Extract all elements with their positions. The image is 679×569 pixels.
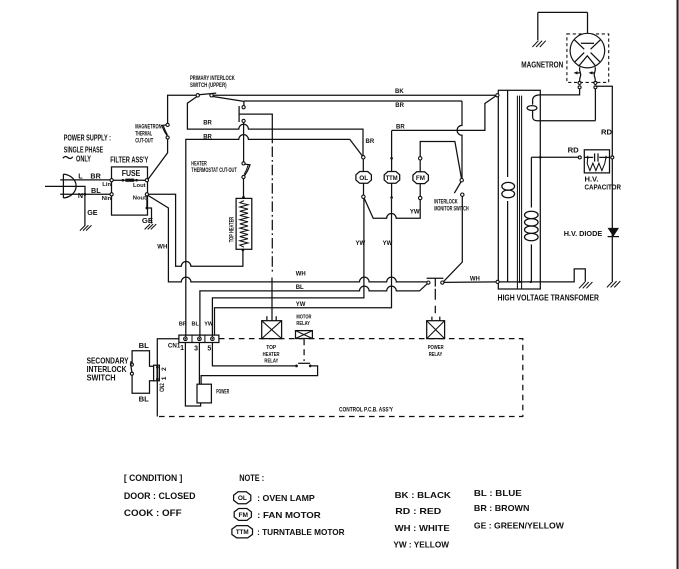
magnetron thermal cut-out switch [162, 123, 169, 139]
wire CN2 pin2 to CN1 [157, 339, 179, 366]
svg-text:ONLY: ONLY [76, 153, 91, 163]
svg-text:RELAY: RELAY [429, 352, 443, 358]
svg-text:1: 1 [180, 345, 184, 352]
svg-text:: OVEN LAMP: : OVEN LAMP [257, 493, 315, 503]
legend TTM text [257, 527, 345, 537]
label WH [157, 245, 167, 251]
label BK [395, 89, 404, 95]
svg-text:YW: YW [204, 321, 214, 327]
pin 3 [194, 346, 198, 353]
svg-text:NOTE :: NOTE : [239, 473, 264, 483]
svg-text:SWITCH: SWITCH [87, 373, 116, 383]
label MAGNETRON THERMAL CUT-OUT [135, 124, 161, 144]
relay actuation link (dashed part) [271, 147, 273, 275]
legend FM text [257, 510, 321, 520]
label HIGH VOLTAGE TRANSFOMER [498, 292, 600, 302]
label CONTROL P.C.B. ASS'Y [339, 408, 393, 414]
label YW (CN1) [204, 321, 214, 327]
pin label 1 (rotated) [161, 376, 168, 380]
label POWER RELAY [428, 345, 444, 358]
label MAGNETRON [521, 61, 563, 70]
legend OL text [257, 493, 315, 503]
svg-text:RELAY: RELAY [264, 359, 278, 365]
top heater element [236, 198, 252, 249]
terminal Nout [145, 193, 148, 196]
power module [197, 384, 211, 403]
label BR [396, 124, 405, 130]
label RD [601, 128, 613, 137]
label Nout [133, 196, 146, 202]
ground (filter earth) [145, 224, 157, 229]
svg-text:BK: BK [395, 89, 404, 95]
label YW [410, 209, 420, 215]
label BR (CN1) [179, 321, 187, 327]
wire monitor switch to WH node [443, 196, 462, 281]
svg-text:COOK : OFF: COOK : OFF [124, 508, 182, 518]
svg-text:H.V. DIODE: H.V. DIODE [564, 229, 603, 238]
motor relay K2 [296, 331, 313, 339]
svg-text:CONTROL P.C.B. ASS'Y: CONTROL P.C.B. ASS'Y [339, 408, 393, 414]
wire YW link: oven lamp to fan motor [364, 198, 420, 218]
label OL [359, 175, 368, 182]
svg-text:Lin: Lin [102, 182, 111, 188]
svg-text:GE: GE [87, 208, 98, 217]
transformer primary bottom terminal [496, 280, 499, 283]
label POWER [216, 388, 229, 395]
svg-text:WH: WH [296, 272, 306, 278]
power relay K3 [427, 317, 445, 339]
top heater relay K1 [262, 278, 282, 339]
svg-text:RD : RED: RD : RED [395, 506, 441, 516]
top heater relay contact S2 [239, 106, 245, 123]
label RD [568, 146, 580, 155]
svg-text:Nin: Nin [102, 196, 112, 202]
svg-text:CUT-OUT: CUT-OUT [135, 138, 153, 144]
wire motor relay contact return to power module [201, 366, 318, 384]
svg-text:MAGNETRON: MAGNETRON [135, 124, 161, 130]
svg-text:YW: YW [383, 241, 393, 247]
wire BL: bus to CN1 pin3 [200, 284, 427, 337]
svg-text:N: N [78, 191, 83, 200]
wire WH: power contact to HV transformer [444, 281, 496, 284]
label FILTER ASS'Y [110, 155, 148, 165]
terminal Lin [110, 179, 113, 182]
wire RD: transformer secondary to capacitor [531, 156, 578, 159]
svg-text:2: 2 [161, 367, 168, 371]
wire CN2 pin1 to PCB edge [156, 381, 158, 417]
svg-text:FM: FM [239, 512, 249, 519]
label CN1 [168, 342, 181, 349]
svg-text:1: 1 [161, 376, 168, 380]
svg-text:GE: GE [142, 216, 153, 225]
primary interlock switch (upper) [196, 93, 216, 97]
terminal Lout [145, 179, 148, 182]
svg-text:BL: BL [91, 186, 101, 195]
wire: interlock to heater relay contact [213, 97, 462, 106]
label GE [87, 208, 98, 217]
svg-text:3: 3 [194, 346, 198, 353]
pin 1 [180, 345, 184, 352]
terminal Nin [110, 193, 113, 196]
wire Lout to magnetron thermal cut-out [148, 139, 168, 179]
svg-text:OL: OL [238, 495, 247, 502]
page border right edge [677, 0, 679, 569]
motor relay contact [295, 339, 312, 367]
relay actuation link (solid part) [239, 114, 272, 143]
svg-text:YW : YELLOW: YW : YELLOW [393, 540, 449, 550]
transformer chassis tab [540, 269, 585, 282]
label H.V. DIODE [564, 229, 603, 238]
label WH [470, 276, 480, 282]
svg-text:YW: YW [410, 209, 420, 215]
magnetron filament legs [574, 67, 596, 81]
wire CN1 pin3 to power module [198, 343, 200, 385]
HV diode D1 [608, 228, 619, 237]
svg-text:TTM: TTM [386, 175, 398, 182]
wire YW: oven lamp to CN1 pin5 [212, 199, 364, 337]
label HEATER THERMOSTAT CUT-OUT [191, 162, 237, 175]
svg-text:BR: BR [179, 321, 187, 327]
label MOTOR RELAY [296, 314, 311, 327]
wire top heater bottom to Nout [149, 194, 245, 266]
label PRIMARY INTERLOCK SWITCH (UPPER) [190, 76, 235, 89]
ground (HV diode) [607, 281, 620, 287]
wire thermostat to top heater [242, 179, 245, 199]
label TTM [386, 175, 398, 182]
svg-text:YW: YW [356, 241, 366, 247]
svg-text:BR: BR [366, 139, 375, 145]
label BR (oven lamp feed) [366, 139, 375, 145]
label TOP HEATER (rotated) [229, 216, 235, 242]
legend: note [239, 473, 264, 483]
legend symbol TTM [232, 526, 253, 538]
svg-text:MAGNETRON: MAGNETRON [521, 61, 563, 70]
svg-text:BL : BLUE: BL : BLUE [474, 488, 522, 498]
svg-text:GE : GREEN/YELLOW: GE : GREEN/YELLOW [474, 520, 564, 530]
control PCB assembly boundary [157, 339, 522, 417]
svg-text:RD: RD [568, 146, 580, 155]
svg-text:RELAY: RELAY [296, 321, 310, 327]
svg-text:CAPACITOR: CAPACITOR [585, 183, 622, 192]
wire RD: filament to HV capacitor [595, 86, 612, 156]
AC plug P1 [45, 174, 110, 198]
svg-text:INTERLOCK: INTERLOCK [434, 200, 458, 206]
svg-text:OL: OL [359, 175, 368, 182]
interlock monitor switch [454, 179, 464, 197]
transformer secondary winding [525, 157, 539, 282]
wire RD down to diode [611, 159, 613, 281]
label YW (lamp drop) [356, 241, 366, 247]
wire filament right to winding [594, 89, 596, 121]
label FUSE [122, 168, 141, 178]
label N [78, 191, 83, 200]
svg-text:[ CONDITION ]: [ CONDITION ] [124, 473, 183, 483]
filter assembly box [112, 167, 148, 215]
svg-text:BR : BROWN: BR : BROWN [474, 503, 529, 513]
svg-text:BL: BL [192, 321, 200, 327]
wire YW: turntable motor to CN1 [215, 199, 392, 335]
ground (plug earth) [80, 225, 92, 230]
CN1 connector [179, 335, 219, 342]
wire BR1: interlock common to oven lamp [187, 97, 363, 156]
wire BR2: bus to CN1 pin1 and oven lamp [186, 135, 362, 337]
magnetron shield (dashed box) [567, 34, 609, 83]
turntable motor TTM [384, 130, 400, 198]
label SECONDARY INTERLOCK SWITCH [87, 356, 129, 383]
svg-text:: TURNTABLE MOTOR: : TURNTABLE MOTOR [257, 527, 345, 537]
svg-text:POWER: POWER [428, 345, 444, 351]
svg-text:TTM: TTM [236, 529, 249, 536]
label BL (upper) [139, 341, 150, 350]
label H.V. CAPACITOR [585, 175, 622, 192]
fan motor FM [413, 142, 462, 200]
GE earth wire from plug [84, 194, 86, 225]
svg-text:THERMAL: THERMAL [135, 131, 152, 137]
svg-text:BL: BL [139, 341, 150, 350]
svg-text:BR: BR [203, 134, 212, 140]
label Nin [102, 196, 112, 202]
wire CN1 pin5 to motor relay contact [212, 343, 295, 366]
legend: condition [124, 473, 196, 518]
svg-text:RD: RD [601, 128, 613, 137]
CN2 connector [154, 365, 160, 381]
label BL (lower) [139, 394, 150, 403]
svg-text:BR: BR [90, 172, 101, 181]
magnetron terminals [578, 81, 597, 88]
secondary interlock switch loop [130, 351, 153, 394]
magnetron V1 [570, 33, 605, 68]
transformer filament winding [527, 95, 595, 121]
wire BR: transformer primary to turntable motor [392, 96, 496, 130]
label BL (CN1) [192, 321, 200, 327]
svg-text:FUSE: FUSE [122, 168, 141, 178]
legend symbol OL [234, 492, 251, 504]
svg-text:WH : WHITE: WH : WHITE [395, 523, 451, 533]
transformer core [517, 96, 521, 289]
svg-text:BL: BL [139, 394, 150, 403]
HV capacitor C1 [578, 150, 614, 173]
label BL (blue wire) [91, 186, 101, 195]
svg-text:BR: BR [396, 124, 405, 130]
pin 5 [207, 346, 211, 353]
wire WH: Nout to power relay contact [148, 195, 427, 282]
label L [78, 172, 83, 181]
legend: wire colours column B [474, 488, 564, 531]
svg-text:TOP: TOP [266, 345, 276, 351]
svg-text:HIGH VOLTAGE TRANSFOMER: HIGH VOLTAGE TRANSFOMER [498, 292, 600, 302]
power supply caption [63, 132, 111, 163]
oven lamp OL [356, 156, 372, 199]
fuse F1 [113, 179, 145, 182]
svg-text:BR: BR [203, 120, 212, 126]
label Lin [102, 182, 111, 188]
pin label 2 (rotated) [161, 367, 168, 371]
svg-text:SWITCH (UPPER): SWITCH (UPPER) [190, 83, 227, 89]
GE wire inside filter [146, 196, 152, 224]
high voltage transformer T1 [498, 90, 540, 289]
label GE (filter earth) [142, 216, 153, 225]
svg-text:WH: WH [470, 276, 480, 282]
svg-text:BR: BR [395, 103, 404, 109]
wire BK: interlock to HV transformer primary top [213, 94, 496, 96]
transformer primary top terminal [496, 94, 499, 97]
svg-text:TOP HEATER: TOP HEATER [229, 216, 235, 242]
label WH (bus) [296, 272, 306, 278]
label CN2 (rotated) [160, 383, 166, 392]
svg-text:: FAN MOTOR: : FAN MOTOR [257, 510, 321, 520]
label Lout [133, 183, 146, 189]
svg-text:Nout: Nout [133, 196, 146, 202]
label BR (heater feed) [395, 103, 404, 109]
svg-text:POWER: POWER [216, 388, 229, 395]
label BR (brown wire) [90, 172, 101, 181]
wire: interlock feed down to monitor switch [457, 101, 462, 179]
label YW (turntable drop) [383, 241, 393, 247]
svg-text:MONITOR SWITCH: MONITOR SWITCH [434, 207, 469, 213]
label YW (bus) [296, 302, 306, 308]
svg-text:FILTER ASS'Y: FILTER ASS'Y [110, 155, 148, 165]
label BL (bus) [296, 285, 304, 291]
wire junction on N line [84, 193, 87, 196]
svg-text:THERMOSTAT CUT-OUT: THERMOSTAT CUT-OUT [191, 168, 237, 174]
svg-text:5: 5 [207, 346, 211, 353]
power relay contact S3 [427, 278, 444, 313]
svg-text:WH: WH [157, 245, 167, 251]
wire CN1 pin1 to power module [185, 343, 200, 407]
ground (transformer) [579, 282, 592, 288]
label FM [416, 175, 425, 182]
wire filament left to winding [540, 89, 579, 95]
svg-text:DOOR : CLOSED: DOOR : CLOSED [124, 491, 196, 501]
magnetron top wire [538, 12, 588, 43]
svg-text:BK : BLACK: BK : BLACK [395, 490, 451, 500]
svg-text:CN2: CN2 [160, 383, 166, 392]
legend: wire colours column A [393, 490, 451, 550]
label BR [203, 120, 212, 126]
transformer primary winding [502, 90, 515, 282]
svg-text:YW: YW [296, 302, 306, 308]
heater thermostat cut-out switch [242, 162, 250, 179]
svg-text:Lout: Lout [133, 183, 146, 189]
ground (magnetron case) [532, 41, 545, 47]
svg-text:L: L [78, 172, 83, 181]
label TOP HEATER RELAY [263, 345, 280, 365]
svg-text:PRIMARY INTERLOCK: PRIMARY INTERLOCK [190, 76, 235, 82]
svg-text:BL: BL [296, 285, 304, 291]
svg-text:POWER SUPPLY :: POWER SUPPLY : [64, 132, 111, 142]
svg-text:CN1: CN1 [168, 342, 181, 349]
svg-text:HEATER: HEATER [263, 352, 280, 358]
svg-text:HEATER: HEATER [191, 162, 207, 168]
wire cut-out to primary interlock common [168, 95, 197, 123]
svg-text:FM: FM [416, 175, 425, 182]
label INTERLOCK MONITOR SWITCH [434, 200, 469, 213]
wire heater relay contact down to thermostat [243, 123, 245, 162]
svg-text:MOTOR: MOTOR [296, 314, 311, 320]
label BR [203, 134, 212, 140]
legend symbol FM [234, 509, 251, 521]
